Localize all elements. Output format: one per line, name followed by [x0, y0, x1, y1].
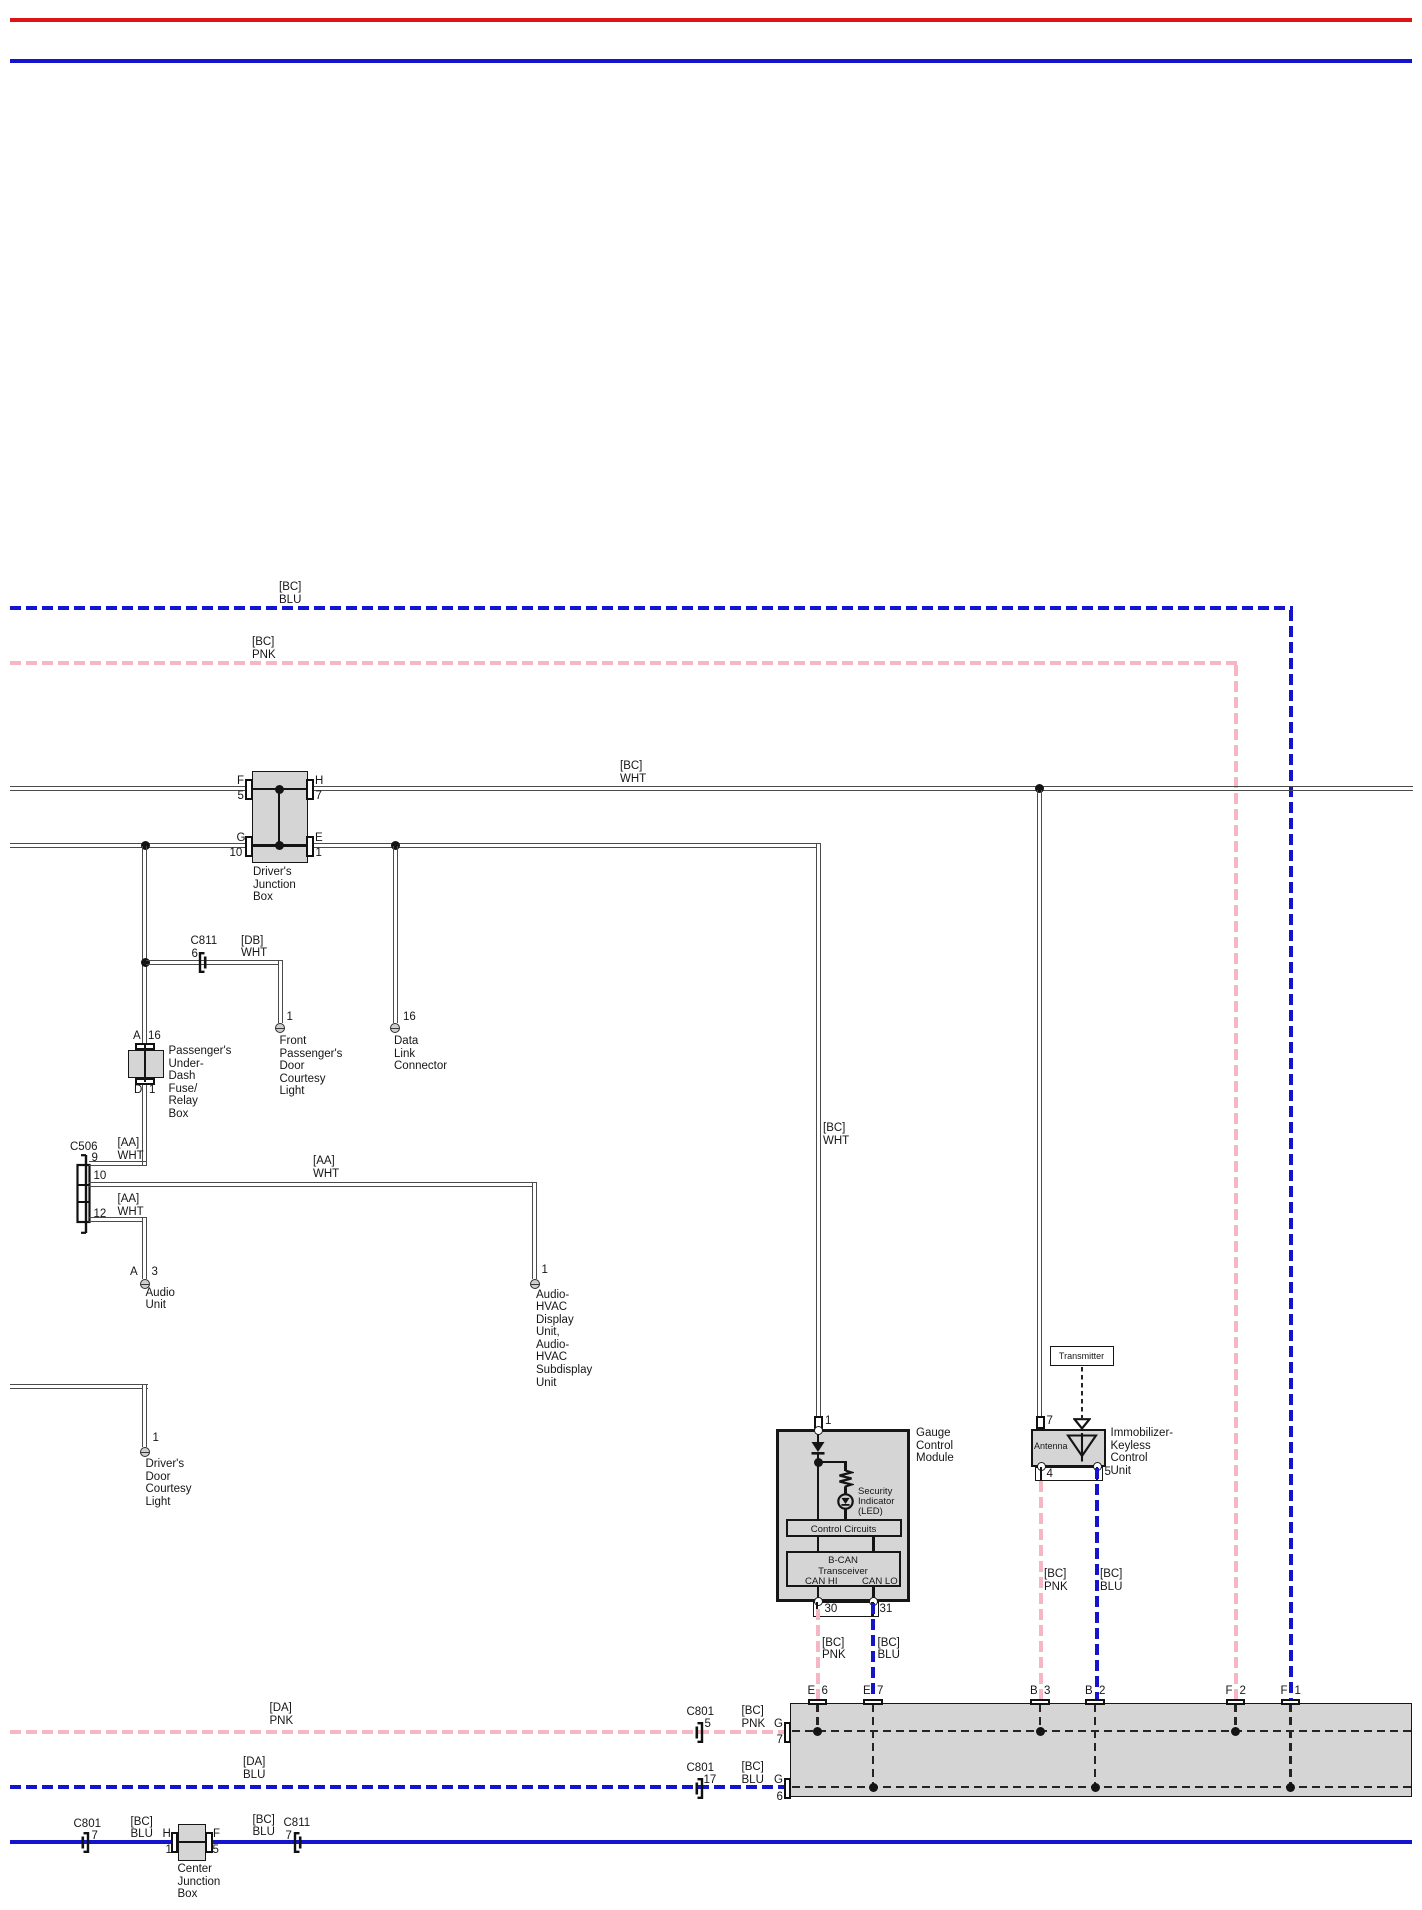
label [BC] PNK (before G7): [742, 1705, 766, 1730]
connector C811 pin 6 (bracket): [197, 951, 208, 974]
label [BC] BLU (before G6): [742, 1761, 764, 1786]
node: junction on row 2 at x=395: [391, 841, 400, 850]
wire: [DA] BLU dashed feed: [10, 1785, 784, 1789]
label pin 1 (audio-hvac): [542, 1264, 548, 1277]
wire: internal dashed CAN-L row: [792, 1786, 1411, 1789]
pin F1 (bottom box): [1281, 1699, 1301, 1706]
wire: fuse element through box: [144, 1045, 147, 1082]
node: internal junction top: [275, 785, 284, 794]
label pin 5: [1105, 1466, 1111, 1479]
wire: internal dashed drop E6: [816, 1704, 819, 1730]
label pin B 3: [1030, 1685, 1038, 1698]
wire: internal dashed drop F1: [1289, 1704, 1292, 1786]
terminal: immobilizer pin 5 exit: [1093, 1462, 1102, 1471]
pin F2 (bottom box): [1226, 1699, 1246, 1706]
label [BC] WHT (row 1): [620, 760, 646, 785]
label [BC] BLU (top bus): [279, 581, 301, 606]
wire: vertical drop to Audio Unit: [142, 1218, 147, 1279]
wire: [BC] PNK dashed from pin 4 to B3: [1039, 1481, 1043, 1699]
wire: internal dashed drop B3: [1039, 1704, 1042, 1730]
label pin E: [315, 832, 323, 845]
pin B2 (bottom box): [1085, 1699, 1105, 1706]
label Audio Unit: [146, 1287, 175, 1312]
connector C506 (multi-pin): [74, 1152, 92, 1236]
antenna arrow (receiver): [1073, 1418, 1091, 1430]
fuse box: Passenger's Under-Dash Fuse/Relay Box body: [128, 1050, 164, 1078]
label pin 10: [230, 847, 243, 860]
connector C811 pin 7 (bracket, bottom): [292, 1831, 303, 1854]
node: B2 junction: [1091, 1783, 1100, 1792]
wire: internal dashed drop F2: [1234, 1704, 1237, 1730]
label pin F 1: [1281, 1685, 1288, 1698]
wire: CAN LO to pin 31: [872, 1587, 874, 1600]
connector C801 pin 17 (bracket): [694, 1777, 705, 1800]
terminal: Driver's Door Courtesy Light pin 1: [140, 1447, 150, 1457]
wire: internal bus G10-E1: [252, 844, 308, 847]
label Data Link Connector: [394, 1035, 447, 1073]
node: E7 junction: [869, 1783, 878, 1792]
wire: C506 pin 10 long run to Audio-HVAC display: [89, 1182, 537, 1187]
label [BC] PNK (top bus): [252, 636, 276, 661]
wire: Driver's Door Courtesy Light horizontal feed: [10, 1384, 148, 1389]
label Immobilizer-Keyless Control Unit: [1111, 1427, 1174, 1477]
wire: [DA] PNK dashed feed: [10, 1730, 784, 1734]
wire: internal bus F5-H7: [252, 788, 308, 791]
wire: internal bus H1-F5: [178, 1841, 205, 1843]
wire: C506 pin 9 jumper: [89, 1161, 147, 1166]
wire: [BC] PNK dashed from pin 30 to E6: [816, 1609, 820, 1699]
module: Immobilizer-Keyless Control Unit body: [1031, 1429, 1106, 1467]
label pin 1 (fuse box): [149, 1084, 155, 1097]
connector: gauge 30/31 plug: [813, 1602, 879, 1617]
wire: CAN HI to pin 30: [817, 1587, 819, 1600]
label Security Indicator (LED): [858, 1487, 894, 1517]
label pin F (cjb): [213, 1828, 220, 1841]
label CAN HI: [805, 1576, 838, 1587]
pin bar 30: [816, 1602, 819, 1609]
terminal: gauge pin 31 exit: [869, 1597, 878, 1606]
label pin 1 (gauge): [825, 1415, 831, 1428]
label pin 16: [148, 1030, 161, 1043]
label pin 5 (C801): [705, 1718, 711, 1731]
node: F2 junction: [1231, 1727, 1240, 1736]
wire: control circuits to B-CAN (left): [817, 1537, 819, 1551]
label [AA] WHT (pin 10 run): [313, 1155, 339, 1180]
pin 1 of Gauge Control Module: [814, 1416, 823, 1430]
label pin 6 (row 2): [777, 1791, 783, 1804]
node: junction on row 1 feeding Immobilizer: [1035, 784, 1044, 793]
wire: [BC] PNK dashed bus, vertical drop to F2: [1234, 665, 1238, 1699]
wire: branch to resistor: [818, 1461, 846, 1463]
wire: internal dashed drop E7: [872, 1704, 875, 1786]
wire: [BC] BLU dashed from pin 5 to B2: [1095, 1468, 1099, 1699]
label pin 10 (C506): [94, 1170, 107, 1183]
connector C801 pin 5 (bracket): [694, 1721, 705, 1744]
pin bar 4: [1040, 1467, 1043, 1481]
label pin 9 (C506): [92, 1152, 98, 1165]
label pin 1: [316, 847, 322, 860]
label pin H (cjb): [163, 1828, 171, 1841]
node: internal junction bottom: [275, 841, 284, 850]
pin bar 5: [1096, 1467, 1099, 1481]
pin H1 of Center Junction Box: [171, 1832, 179, 1853]
node: junction at C811 branch: [141, 958, 150, 967]
label C506: [70, 1141, 98, 1154]
label Front Passenger's Door Courtesy Light: [280, 1035, 343, 1098]
terminal: gauge pin 1 entry: [814, 1426, 823, 1435]
label [BC] BLU (immobilizer drop): [1100, 1568, 1122, 1593]
label Antenna: [1034, 1441, 1068, 1451]
label pin 1 (cjb): [166, 1844, 172, 1857]
pin H7 of Driver's Junction Box: [306, 779, 314, 800]
node: E6 junction: [813, 1727, 822, 1736]
wire: [BC] PNK dashed bus, horizontal run: [10, 661, 1238, 665]
label pin B 2: [1085, 1685, 1093, 1698]
diode (cathode down): [810, 1441, 826, 1456]
pin G7 (bottom box left): [784, 1722, 792, 1743]
antenna symbol inside immobilizer: [1064, 1432, 1100, 1463]
label pin 7 (C801 bottom): [92, 1830, 98, 1843]
junction box: bottom CAN junction body: [790, 1703, 1412, 1797]
wire: internal vertical link: [278, 788, 281, 846]
wire: solid red power rail (top): [10, 18, 1412, 22]
label pin F 2: [1226, 1685, 1233, 1698]
label C801 (bottom): [74, 1818, 102, 1831]
wire: [BC] BLU dashed from pin 31 to E7: [871, 1603, 875, 1699]
label [BC] PNK (gauge drop): [822, 1637, 846, 1662]
label C801 (pnk): [687, 1706, 715, 1719]
label pin D: [134, 1084, 142, 1097]
label [DA] BLU: [243, 1756, 265, 1781]
wire: horizontal branch to C811: [146, 960, 283, 965]
module: Gauge Control Module body: [776, 1429, 911, 1602]
label [BC] PNK (immobilizer drop): [1044, 1568, 1068, 1593]
pin A16 of Under-Dash Fuse/Relay Box: [135, 1043, 155, 1050]
label pin G (row 1): [774, 1718, 783, 1731]
label pin 5: [238, 790, 244, 803]
pin F5 of Center Junction Box: [205, 1832, 213, 1853]
label Driver's Junction Box: [253, 866, 296, 904]
label Center Junction Box: [178, 1863, 221, 1901]
label Driver's Door Courtesy Light: [146, 1458, 192, 1508]
pin G6 (bottom box left): [784, 1778, 792, 1799]
label [BC] BLU (left of center junction box): [131, 1816, 153, 1841]
connector: immobilizer 4/5 plug: [1035, 1467, 1104, 1481]
resistor (security indicator series): [837, 1470, 854, 1489]
wire: vertical white wire to Immobilizer pin 7: [1037, 790, 1042, 1416]
label C801 (blu): [687, 1762, 715, 1775]
label pin F: [237, 775, 244, 788]
pin E7 (bottom box): [863, 1699, 883, 1706]
label B-CAN Transceiver: [786, 1555, 901, 1577]
wire: solid blue rail (bottom): [10, 1840, 1412, 1844]
label pin 7 (row 1): [777, 1734, 783, 1747]
label Passenger's Under-Dash Fuse/Relay Box: [169, 1045, 232, 1121]
node: junction on row 2 at x=145: [141, 841, 150, 850]
label pin G: [237, 832, 246, 845]
label pin H: [315, 775, 323, 788]
wire: vertical drop to Data Link Connector: [393, 846, 398, 1023]
label Audio-HVAC Display Unit / Subdisplay Unit: [536, 1289, 592, 1390]
node: junction below diode: [814, 1458, 823, 1467]
label pin G (row 2): [774, 1774, 783, 1787]
label [AA] WHT (pin 9): [118, 1137, 144, 1162]
label C811: [191, 935, 218, 948]
wire: transmitter RF dashed link: [1081, 1367, 1083, 1418]
label pin E 6: [808, 1685, 816, 1698]
LED: Security Indicator (LED): [837, 1493, 854, 1510]
pin G10 of Driver's Junction Box: [245, 836, 253, 857]
connector C801 pin 7 (bracket, bottom): [80, 1831, 91, 1854]
block: Control Circuits: [786, 1519, 902, 1538]
wire: vertical drop to Driver's Door Courtesy Light: [142, 1385, 147, 1447]
wire: resistor to LED: [844, 1487, 846, 1495]
pin E1 of Driver's Junction Box: [306, 836, 314, 857]
label pin 16 (Data Link Connector): [403, 1011, 416, 1024]
label pin 7 (immobilizer): [1047, 1415, 1053, 1428]
label pin E 7: [863, 1685, 871, 1698]
junction box: Center Junction Box body: [178, 1824, 206, 1861]
wire: internal dashed CAN-H row: [792, 1730, 1411, 1733]
terminal: Audio-HVAC Display Unit pin 1: [530, 1279, 540, 1289]
wire: [BC] WHT horizontal row 1: [10, 786, 1413, 791]
label pin 4: [1047, 1468, 1053, 1481]
label pin A: [133, 1030, 141, 1043]
label pin 31: [880, 1603, 893, 1616]
pin 7 of Immobilizer-Keyless Control Unit: [1036, 1416, 1045, 1430]
wire: LED to control circuits box: [844, 1509, 846, 1519]
wire: [BC] WHT horizontal row 2: [10, 843, 821, 848]
terminal: gauge pin 30 exit: [814, 1597, 823, 1606]
terminal: Audio Unit pin A3: [140, 1279, 150, 1289]
label pin 5 (cjb): [213, 1844, 219, 1857]
wire: diode to control circuits: [817, 1454, 819, 1519]
label pin 30: [825, 1603, 838, 1616]
pin D1 of Under-Dash Fuse/Relay Box: [135, 1078, 155, 1085]
wire: vertical white wire x=145 from row2 to fuse box: [142, 846, 147, 1044]
label [BC] BLU (right of center junction box): [253, 1814, 275, 1839]
pin F5 of Driver's Junction Box: [245, 779, 253, 800]
label pin 1 (driver's door light): [153, 1432, 159, 1445]
label pin 1 (front passenger light): [287, 1011, 293, 1024]
wire: vertical drop to Front Passenger's Door Courtesy Light: [278, 961, 283, 1023]
label Gauge Control Module: [916, 1427, 954, 1465]
label pin 3 (audio unit): [152, 1266, 158, 1279]
label [DA] PNK: [270, 1702, 294, 1727]
block: Transmitter: [1050, 1346, 1114, 1366]
label pin 6 (C811): [192, 948, 198, 961]
wire: solid blue rail (top): [10, 59, 1412, 63]
pin B3 (bottom box): [1030, 1699, 1050, 1706]
wire: [BC] BLU dashed bus, horizontal run: [10, 606, 1293, 610]
wire: down to resistor: [844, 1461, 846, 1471]
terminal: immobilizer pin 4 exit: [1037, 1462, 1046, 1471]
terminal: Data Link Connector pin 16: [390, 1023, 400, 1033]
wire: vertical white wire D1 to C506 pin 9 row: [142, 1085, 147, 1166]
label pin A (audio unit): [130, 1266, 138, 1279]
node: B3 junction: [1036, 1727, 1045, 1736]
pin bar 31: [871, 1602, 874, 1616]
wire: vertical drop to Audio-HVAC Display Unit: [532, 1183, 537, 1279]
junction box: Driver's Junction Box body: [252, 771, 309, 863]
label C811 (bottom): [284, 1817, 311, 1830]
label [BC] BLU (gauge drop): [878, 1637, 900, 1662]
pin E6 (bottom box): [808, 1699, 828, 1706]
label CAN LO: [862, 1576, 898, 1587]
wire: internal dashed drop B2: [1094, 1704, 1097, 1786]
label pin 17 (C801): [704, 1774, 717, 1787]
wire: C506 pin 12 jumper: [89, 1217, 147, 1222]
label [DB] WHT: [241, 935, 267, 960]
label pin 7 (C811 bottom): [286, 1830, 292, 1843]
wire: [BC] BLU dashed bus, vertical drop to F1: [1289, 610, 1293, 1699]
node: F1 junction: [1286, 1783, 1295, 1792]
label pin 7: [316, 790, 322, 803]
wire: vertical white wire to Gauge Control Module pin 1: [816, 844, 821, 1416]
label pin 12 (C506): [94, 1208, 107, 1221]
terminal: Front Passenger's Door Courtesy Light pin 1: [275, 1023, 285, 1033]
label [BC] WHT (gauge drop): [823, 1122, 849, 1147]
block: B-CAN Transceiver: [786, 1551, 901, 1588]
wire: pin1 to diode: [817, 1434, 819, 1443]
wire: control circuits to B-CAN (right): [872, 1537, 874, 1551]
label [AA] WHT (pin 12): [118, 1193, 144, 1218]
